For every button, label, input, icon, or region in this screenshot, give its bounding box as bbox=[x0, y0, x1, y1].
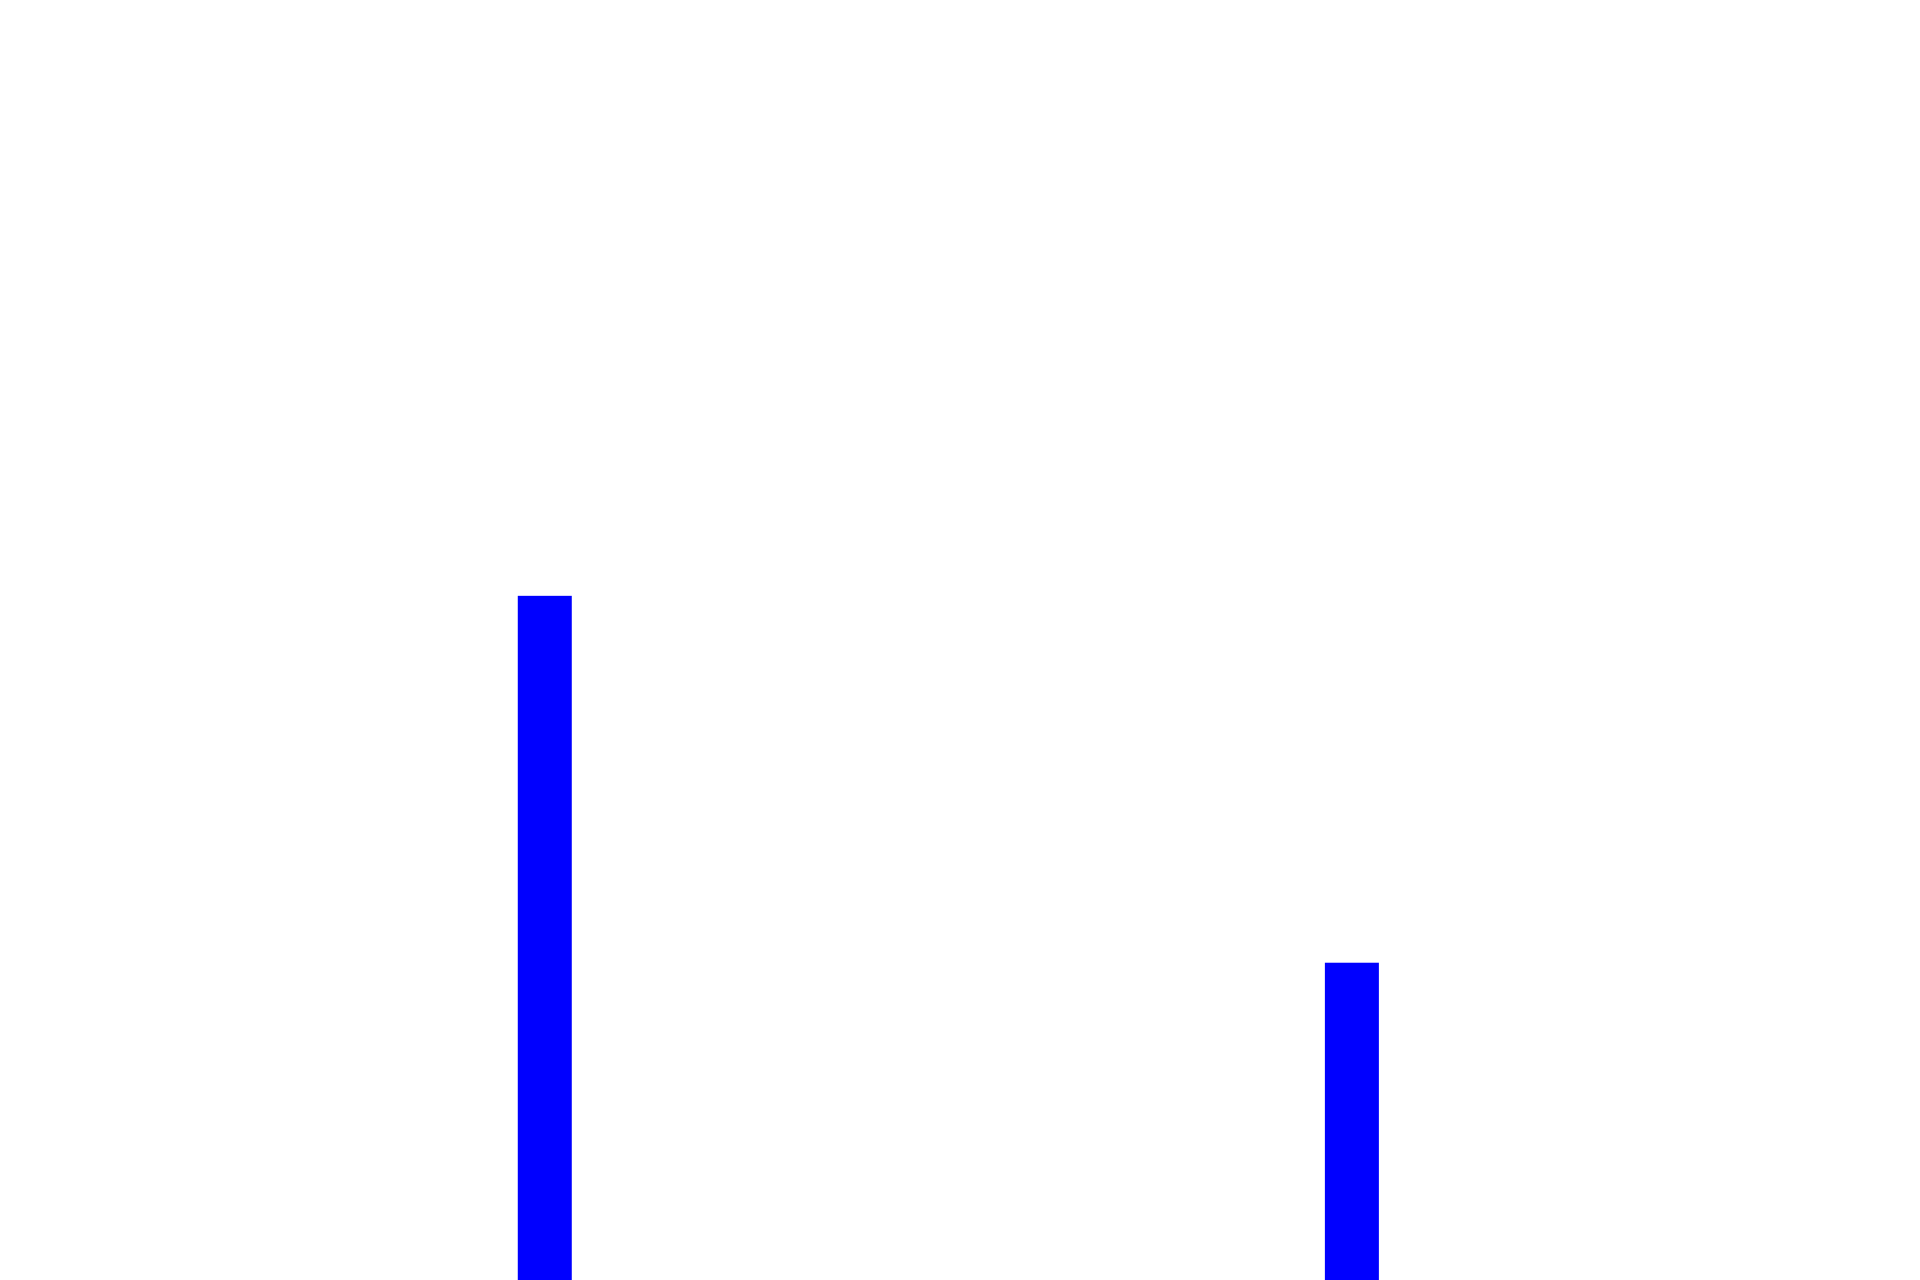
blue bar 2 (right, short) bbox=[1325, 963, 1379, 1280]
blue bar 1 (left, tall) bbox=[518, 596, 572, 1280]
